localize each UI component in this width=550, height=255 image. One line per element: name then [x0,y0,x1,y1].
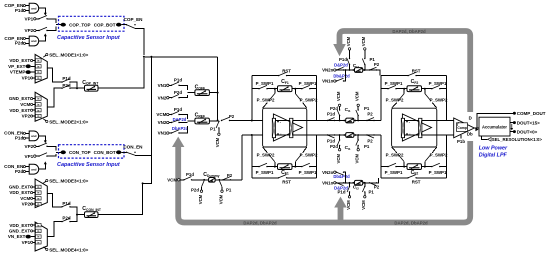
svg-text:VCM: VCM [361,200,366,210]
svg-text:D: D [469,116,472,121]
terminal COP_BOT [94,22,122,27]
wire row D main [336,178,378,183]
svg-text:RST: RST [412,180,421,185]
svg-text:P2d: P2d [191,188,199,193]
junction at (142.6,183.4) [142,182,144,184]
switch DAP2d (row D) [337,183,344,186]
svg-text:P_SWP2: P_SWP2 [257,152,275,157]
svg-text:P_SWP1: P_SWP1 [429,170,447,175]
wire row C lower interstage main line [317,134,381,136]
terminal VN1o (row A) [322,79,336,84]
wire vertical rail to node A [217,57,219,121]
wire G1 output to VP1 switch with arrow [39,8,47,15]
svg-text:VP2: VP2 [25,28,34,33]
svg-text:P1: P1 [364,106,370,111]
wire mux2 output to P2d switch [47,88,62,107]
capacitor C_CON_INT [77,206,102,218]
switch P_SWP1 bottom-left (U5 (integrator 1)) [252,166,259,168]
switch P_SWP2 top-left diagonal (U6 (integrator 2)) [403,89,405,94]
wire CON node down to C_CON_INT line [98,183,143,214]
junction D output [476,127,478,129]
wire mux3 output to P1d switch [47,193,62,206]
gray arrow up (bottom center, to DAC switches) [334,197,347,208]
svg-text:P_SWP1: P_SWP1 [299,170,317,175]
svg-text:Db: Db [467,132,473,137]
svg-text:CCON_INT: CCON_INT [82,206,102,212]
switch VN1-P1d (C_OFF) [158,82,188,90]
junction node COP-int [76,87,78,89]
svg-text:VCM: VCM [198,194,203,204]
svg-text:VP2: VP2 [22,114,31,119]
svg-text:VP1: VP1 [22,240,31,245]
switch P2d (mux4 path) [61,215,77,223]
switch P_SWP1 bottom-left (U6 (integrator 2)) [381,166,388,168]
switch VCM-P1d (C_REF) [156,111,187,119]
junction C_OFF output on vertical [217,92,219,94]
and-gate G4 (CON_EN AND P2d) [4,164,39,174]
gray bus branch bottom center [338,207,344,223]
svg-text:VP1: VP1 [25,17,34,22]
svg-text:P_SWP2: P_SWP2 [257,98,275,103]
svg-text:CF2: CF2 [411,79,419,85]
wire U6 (integrator 2) internal lines [405,120,419,122]
svg-text:COMP_DOUT: COMP_DOUT [517,111,546,116]
svg-text:P2d: P2d [15,41,24,46]
svg-text:SEL_MODE3<1:0>: SEL_MODE3<1:0> [49,179,88,184]
label SEL_MODE4<1:0> [44,247,89,253]
svg-text:and: and [31,39,37,43]
wire/terminal DOUT<15> [510,120,540,125]
svg-text:VCM: VCM [167,177,177,182]
svg-text:P_SWP1: P_SWP1 [385,81,403,86]
junction node CON-int [76,214,78,216]
svg-text:CF1: CF1 [281,79,289,85]
svg-text:Low Power: Low Power [479,146,508,152]
svg-text:VDD_EXT: VDD_EXT [9,223,30,228]
label SEL_MODE3<1:0> [44,179,89,184]
wire U5 (integrator 1) cell verticals top [251,76,253,121]
stub P1d to VCM (row A left) [339,36,351,71]
junction node A [217,120,219,122]
mux U4 (SEL_MODE4) [35,222,47,251]
capacitor C_I2 (row D) [352,180,365,190]
svg-text:Db&P2d: Db&P2d [333,174,350,179]
svg-text:D&P2d: D&P2d [334,63,348,68]
switch P_SWP2 top-right diagonal (U6 (integrator 2)) [424,89,426,94]
switch P_SWP1 top-left (U6 (integrator 2)) [381,88,388,90]
svg-text:VCM: VCM [355,154,360,164]
svg-text:Comp: Comp [457,126,467,130]
svg-text:Db&P2d: Db&P2d [333,74,350,79]
svg-text:CF1: CF1 [281,170,289,176]
switch P2 (row A) [369,62,380,71]
svg-text:VN_EXT: VN_EXT [8,234,26,239]
wire row A main [336,70,380,76]
svg-text:VN1: VN1 [158,83,167,88]
svg-text:P_SWP1: P_SWP1 [256,81,274,86]
capacitor C_Dummy [192,172,243,182]
svg-text:P_SWP2: P_SWP2 [386,98,404,103]
svg-text:P1d: P1d [15,136,24,141]
switch VP1 (P1d controlled) [25,16,56,24]
switch VP2 (CON, P1d controlled) [25,143,56,151]
svg-text:Digital LPF: Digital LPF [479,153,508,159]
svg-text:P1d: P1d [327,112,335,117]
gray arrow down (top center, to DAC switches) [333,44,346,56]
svg-text:VCM: VCM [336,154,341,164]
switch P2 (row D) [369,182,380,189]
switch P_SWP1 top-left (U5 (integrator 1)) [252,88,259,90]
svg-text:VN2: VN2 [158,95,167,100]
terminal VN2o (row D) [322,170,336,175]
svg-text:P2: P2 [374,62,380,67]
switch P_SWP2 top-right diagonal (U5 (integrator 1)) [294,89,296,94]
svg-text:VN2o: VN2o [322,170,334,175]
input VP1 (mux4) [22,240,35,245]
svg-text:P1: P1 [226,188,232,193]
input VDD_EXT (mux1) [9,58,35,63]
svg-text:VDD_EXT: VDD_EXT [9,58,30,63]
op-amp U5 (integrator 1) output chopper [290,118,293,137]
wire node VP to COP_TOP [56,24,61,26]
svg-text:CF2: CF2 [411,170,419,176]
svg-text:CON_TOP: CON_TOP [69,150,91,155]
wire mux4 output to P2d switch [47,222,62,237]
switch P_SWP1 bottom-right (U6 (integrator 2)) [425,166,432,168]
wire row B upper interstage main line [317,120,381,122]
svg-text:VP_EXT: VP_EXT [8,64,26,69]
svg-text:P_SWP2: P_SWP2 [430,152,448,157]
svg-text:DAP2d, DbAP2d: DAP2d, DbAP2d [392,29,426,34]
wire node VP-CON to CON_TOP [56,151,61,153]
switch RST bottom (U6 (integrator 2)) [381,177,408,179]
svg-text:SEL_RESOLUTION<1:0>: SEL_RESOLUTION<1:0> [492,137,543,142]
input VDD_EXT (mux3) [9,190,35,195]
wire C_OP_INT to top rail [98,58,144,88]
wire G2 output to VP2 switch with arrow [39,33,47,41]
svg-text:VP2: VP2 [25,144,34,149]
input VP1 (mux1) [22,76,35,81]
svg-text:P_SWP1: P_SWP1 [299,81,317,86]
svg-text:P2: P2 [367,112,373,117]
gray arrow up (left, to C_REF switches) [172,137,184,147]
op-amp U5 (integrator 1) outer box [263,108,307,147]
mux U2 (SEL_MODE2) [35,92,47,121]
input VCM (mux3) [20,196,35,201]
switch DAP2d (row A) [337,67,344,70]
terminal CON_TOP [61,150,91,155]
svg-text:P1d: P1d [174,78,183,83]
switch VN2-P2d (C_OFF) [158,94,188,100]
svg-text:P_SWP2: P_SWP2 [386,152,404,157]
switch P_SWP2 bottom-left diagonal (U5 (integrator 1)) [274,162,276,167]
switch P_SWP2 top-left diagonal (U5 (integrator 1)) [274,89,276,94]
wire comparator output D to accumulator [474,127,479,129]
junction upper line at cell1 left [251,120,253,122]
op-amp U6 (integrator 2) output chopper [419,118,422,137]
svg-text:DbAP2d: DbAP2d [172,126,189,131]
switch P1d (mux3 path) [61,201,77,215]
input VP_EXT (mux1) [8,64,35,69]
svg-text:COP_EN: COP_EN [124,17,144,22]
input GND_EXT (mux4) [9,229,35,234]
wire mux1 output to P1d switch [47,68,62,82]
svg-text:Capacitive Sensor Input: Capacitive Sensor Input [57,35,121,41]
mux U3 (SEL_MODE3) [35,179,47,208]
svg-text:VN1: VN1 [158,131,167,136]
svg-text:CI1: CI1 [345,145,351,151]
svg-text:DAP2d, DbAP2d: DAP2d, DbAP2d [394,220,428,225]
svg-text:VDD_EXT: VDD_EXT [9,190,30,195]
capacitor C_OFF [188,85,218,96]
svg-text:CON_BOT: CON_BOT [94,150,116,155]
svg-text:SEL_MODE2<1:0>: SEL_MODE2<1:0> [49,119,88,124]
switch RST bottom (U5 (integrator 1)) [252,177,279,179]
switch CON_EN (right of box) [121,145,151,156]
input VDD_EXT (mux4) [9,223,35,228]
input VCM (mux2) [20,102,35,107]
svg-text:Accumulator: Accumulator [482,124,507,129]
wire/terminal COMP_DOUT [477,111,546,128]
svg-text:VN1o: VN1o [322,79,334,84]
svg-text:VN1o: VN1o [322,181,334,186]
svg-text:P1: P1 [369,190,375,195]
op-amp U6 (integrator 2) outer box [392,108,437,147]
wire U5 (integrator 1) cell verticals bottom [251,135,253,178]
wire top rail [144,56,218,58]
wire integrator2 outputs to comparator [447,120,454,122]
wire lower line from C_Dummy to amp1 [242,134,272,136]
terminal CON_BOT [94,150,122,155]
svg-text:VCM: VCM [156,112,166,117]
wire U6 (integrator 2) cell verticals bottom [380,135,382,178]
svg-text:DOUT<15>: DOUT<15> [517,120,540,125]
svg-text:RST: RST [412,69,421,74]
svg-text:VP1: VP1 [25,154,34,159]
junction on top rail at x=151.4 [150,56,152,58]
wire G4 output to VP1 switch with arrow [39,161,47,169]
and-gate G1 (COP_EN AND P1d) [4,3,38,13]
mux U1 (SEL_MODE1) [35,54,47,83]
svg-text:CON_EN: CON_EN [123,145,143,150]
op-amp U5 (integrator 1) input chopper [272,118,275,137]
svg-text:CI1: CI1 [345,107,351,113]
svg-text:VCM: VCM [361,36,366,46]
switch VN2-DAP2d (C_REF) [158,120,188,125]
switch P_SWP1 top-right (U5 (integrator 1)) [295,88,302,90]
switch P_SWP2 bottom-right diagonal (U5 (integrator 1)) [294,162,296,167]
label SEL_MODE1<1:0> [44,52,89,57]
capacitor C_REF [188,113,218,124]
label P1b (comparator clock) [457,135,465,144]
terminal VN2o (row A) [322,68,336,73]
terminal COP_TOP [61,22,91,27]
svg-text:DAP2d, DbAP2d: DAP2d, DbAP2d [243,220,277,225]
capacitive sensor input box (COP) dashed [59,16,125,31]
svg-text:P2d: P2d [174,90,183,95]
junction on top rail at x=143.9 [143,56,145,58]
switch row D upper (DbAP2d) [336,172,347,184]
svg-text:P1: P1 [210,127,216,132]
svg-text:P2: P2 [229,114,235,119]
svg-text:SEL_MODE4<1:0>: SEL_MODE4<1:0> [49,248,88,253]
stub P2d to VCM (C_Dummy left) [191,181,204,205]
capacitive sensor input box (CON) dashed [59,145,125,158]
svg-text:DOUT<0>: DOUT<0> [517,129,538,134]
svg-text:P1d: P1d [339,57,347,62]
switch DbAP2d (row A) [336,69,347,82]
wire G3 output to VP2 switch with arrow [39,136,47,143]
op-amp U5 (integrator 1) input dots [277,121,279,123]
svg-text:P1d: P1d [327,138,335,143]
svg-text:VCM: VCM [20,196,30,201]
switch P_SWP2 bottom-right diagonal (U6 (integrator 2)) [424,162,426,167]
stub P1 to VCM (row D right) [361,182,374,210]
svg-text:GND_EXT: GND_EXT [9,185,31,190]
wire/terminal DOUT<0> [510,129,538,134]
svg-text:P1b: P1b [457,139,465,144]
op-amp U6 (integrator 2) input dots [406,121,408,123]
svg-text:P2d: P2d [15,169,24,174]
svg-text:and: and [31,6,37,10]
svg-text:P1d: P1d [186,172,194,177]
svg-text:SEL_MODE1<1:0>: SEL_MODE1<1:0> [49,52,88,57]
input VDD_EXT (mux2) [9,108,35,113]
op-amp U6 (integrator 2) input chopper [401,118,404,137]
svg-text:P2d: P2d [330,144,338,149]
switch P2d (mux2 path) [61,83,78,89]
svg-text:VN2o: VN2o [322,68,334,73]
svg-text:P_SWP1: P_SWP1 [429,81,447,86]
svg-text:VCM: VCM [218,194,223,204]
svg-text:P_SWP2: P_SWP2 [300,152,318,157]
svg-text:COP_TOP: COP_TOP [69,22,90,27]
svg-text:P_SWP1: P_SWP1 [256,170,274,175]
svg-text:GND_EXT: GND_EXT [9,96,31,101]
wire vertical x=151.4 rail-to-CON [143,57,152,184]
svg-text:P_SWP2: P_SWP2 [300,98,318,103]
input VN_EXT (mux4) [8,234,35,239]
capacitor C_OP_INT [78,80,99,91]
switch P_SWP1 bottom-right (U5 (integrator 1)) [295,166,302,168]
stub P1 to VCM (row A right) [361,36,375,71]
svg-text:VCM: VCM [346,200,351,210]
svg-text:P1d: P1d [338,190,346,195]
terminal VN1o (row D) [322,181,336,186]
switch VP1 (CON, P2d controlled) [25,153,56,159]
stub P1d to VCM (row D left) [338,182,351,210]
switch VP2 (P2d controlled) [25,26,56,33]
svg-text:RST: RST [282,69,291,74]
svg-text:COP_BOT: COP_BOT [94,22,116,27]
svg-text:P_SWP2: P_SWP2 [430,98,448,103]
switch RST top (U6 (integrator 2)) [381,75,408,77]
comparator U7 triangle [454,118,475,138]
switch COP_EN (right of box) [121,17,143,55]
switch P1 to VCM (node A reset) [210,121,220,147]
and-gate G2 (COP_EN AND P2d) [4,36,38,46]
wire U5 (integrator 1) internal lines [276,120,290,122]
wire/label SEL_RESOLUTION<1:0> [482,136,543,142]
terminal VCM (C_Dummy row) [167,177,184,182]
svg-text:VP2: VP2 [22,202,31,207]
comparator U7 Comp box [457,123,468,132]
svg-text:VCM: VCM [346,36,351,46]
capacitor C_I2 (row A) [352,63,365,72]
svg-text:and: and [31,167,37,171]
input GND_EXT (mux2) [9,96,35,101]
switch P_SWP2 bottom-left diagonal (U6 (integrator 2)) [403,162,405,167]
op-amp U5 (integrator 1) triangle [273,114,302,141]
svg-text:VP1: VP1 [22,76,31,81]
switch P2 (C_Dummy to lower line) [222,135,242,181]
switch P2 (node A to integrator1) [221,114,252,121]
wire U6 (integrator 2) cell verticals top [380,76,382,121]
svg-text:VCM: VCM [336,91,341,101]
input VTEMP (mux1) [10,70,35,75]
svg-text:VCM: VCM [355,91,360,101]
switch RST top (U5 (integrator 1)) [252,75,279,77]
switch P_SWP1 top-right (U6 (integrator 2)) [425,88,432,90]
stub P1 to VCM (C_Dummy right) [218,181,232,205]
svg-text:P1: P1 [364,144,370,149]
input GND_EXT (mux3) [9,185,35,190]
svg-text:P1d: P1d [15,8,24,13]
svg-text:P_SWP1: P_SWP1 [385,170,403,175]
switch P1d (mux1 path) [61,76,77,88]
label SEL_MODE2<1:0> [44,119,89,124]
svg-text:and: and [31,134,37,138]
svg-text:GND_EXT: GND_EXT [9,229,31,234]
svg-text:VCM: VCM [215,137,220,147]
input VP2 (mux2) [22,114,35,119]
junction lower line at cell1 left [251,134,253,136]
svg-text:VCM: VCM [20,102,30,107]
bus range arrow DOUT [511,124,513,129]
svg-text:RST: RST [282,180,291,185]
input VP2 (mux3) [22,202,35,207]
svg-text:VTEMP: VTEMP [10,70,26,75]
wire upper line into amp1 [252,120,272,122]
switch P1d (C_Dummy) [183,172,202,181]
svg-text:VN2: VN2 [158,120,167,125]
svg-text:VDD_EXT: VDD_EXT [9,108,30,113]
and-gate G3 (CON_EN AND P1d) [4,131,39,141]
switch VN1-DbAP2d (C_REF) [158,126,188,136]
op-amp U6 (integrator 2) triangle [402,114,431,141]
svg-text:Capacitive Sensor Input: Capacitive Sensor Input [57,162,121,168]
accumulator block [479,117,510,136]
svg-text:P2: P2 [367,138,373,143]
gray feedback bus top/right/bottom loop (DAP2d,DbAP2d) [178,31,470,223]
